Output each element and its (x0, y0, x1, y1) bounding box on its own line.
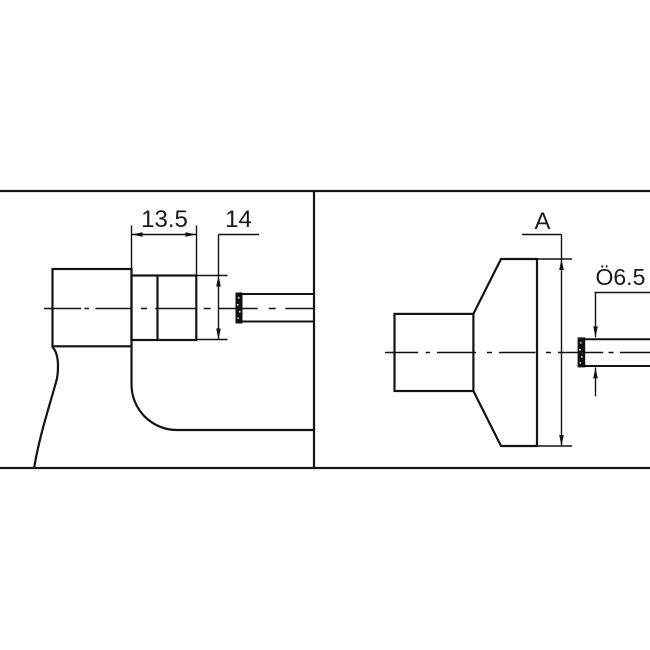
svg-text:Ö6.5: Ö6.5 (596, 264, 646, 290)
svg-text:14: 14 (225, 206, 252, 233)
svg-text:A: A (534, 208, 550, 235)
svg-text:13.5: 13.5 (141, 206, 188, 233)
